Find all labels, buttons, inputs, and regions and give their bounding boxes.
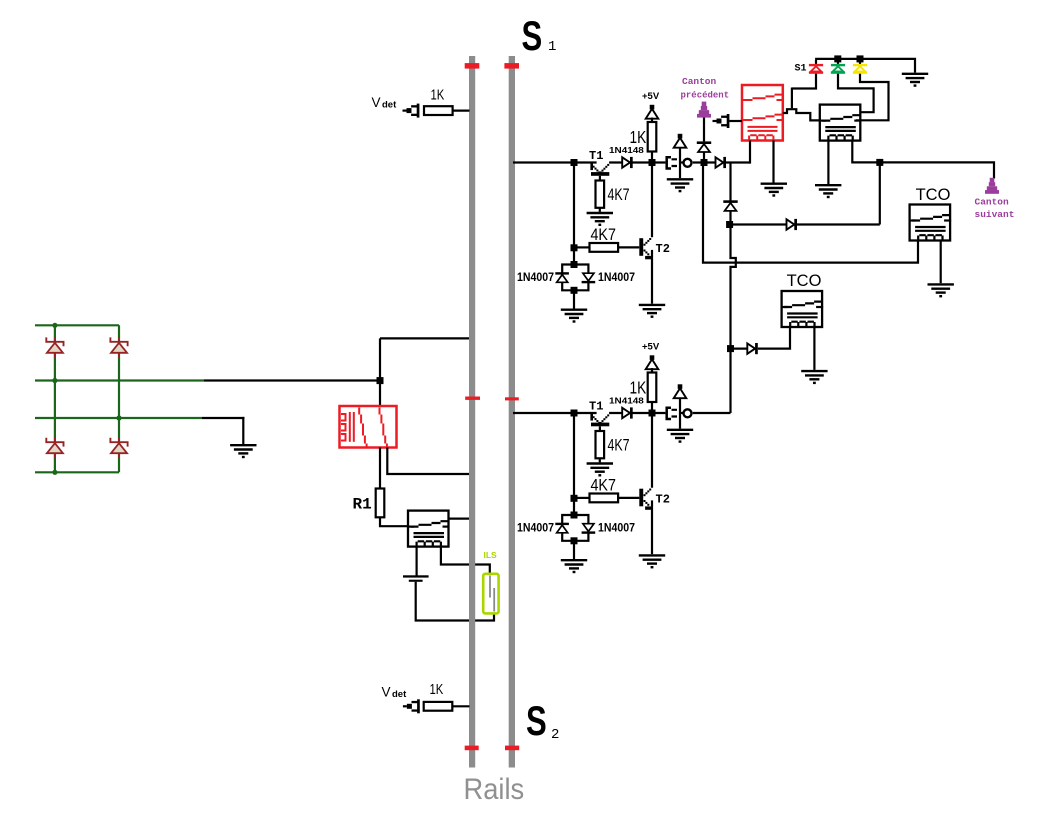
wire [815,59,915,73]
wire [573,163,575,265]
relay K1 [340,406,397,448]
wire [573,541,575,559]
node [52,470,57,475]
wire [758,328,790,349]
wire [731,163,736,414]
svg-text:4K7: 4K7 [591,476,616,494]
wire [703,117,705,142]
svg-text:1N4007: 1N4007 [517,522,554,535]
diode 1N4148 [622,408,630,418]
resistor 4K7 [574,497,590,499]
diode 1N4148 [622,157,630,167]
relay TCO2 [782,291,823,327]
wire [879,162,881,224]
wire [856,74,889,121]
wire [749,141,751,164]
resistor 1K [648,122,657,152]
transistor T1 [590,164,593,171]
wire [35,471,119,473]
svg-text:+5V: +5V [642,91,660,102]
resistor 4K7 [596,431,605,458]
wire [703,163,918,263]
resistor R1 [376,489,385,518]
svg-text:T2: T2 [656,242,670,256]
node [649,410,656,417]
port Canton precedent [702,102,707,107]
node [834,55,841,62]
diode D7 [787,219,795,229]
svg-text:Canton: Canton [682,76,717,87]
relay K3 [742,85,783,141]
wire [852,141,994,179]
svg-text:suivant: suivant [975,209,1015,220]
label S2 [526,697,547,744]
resistor 1K [424,106,453,115]
diode pair 1N4007 [562,265,588,291]
connector J1 [667,157,671,168]
node [649,159,656,166]
transistor T2 [639,238,643,256]
relay TCO1 [910,205,951,241]
wire [651,163,653,238]
svg-text:1: 1 [548,39,556,55]
diode D6 [716,157,724,167]
wire [35,417,202,419]
resistor 4K7 [596,181,605,208]
wire [731,348,748,350]
wire [204,379,380,381]
wire [202,417,244,419]
reed switch ILS [483,574,498,614]
diode D9 [747,343,755,353]
wire [813,327,815,370]
diode pair 1N4007 [562,515,588,541]
svg-text:1K: 1K [431,86,445,103]
wire [681,161,684,163]
svg-text:S1: S1 [795,64,807,75]
wire [379,448,381,489]
rail 1 [469,56,475,768]
ground [587,213,613,221]
transistor T1 [590,414,593,421]
diode D3 [46,438,63,447]
svg-text:+5V: +5V [642,342,660,353]
relay K4 [820,105,861,141]
svg-text:Rails: Rails [464,773,525,806]
svg-text:TCO: TCO [787,272,822,290]
ground [928,284,954,292]
gap mark [505,397,519,400]
wire [387,448,469,475]
svg-text:1K: 1K [630,128,647,147]
port Canton suivant [990,178,995,183]
gap mark [504,63,519,69]
svg-text:R1: R1 [353,496,372,514]
gap mark [465,63,480,69]
svg-text:V: V [382,685,391,700]
resistor 1K [424,702,453,711]
LED green [831,64,845,66]
node [52,323,57,328]
svg-text:Canton: Canton [975,196,1010,207]
wire [693,161,750,163]
wire [416,547,418,576]
node [571,244,578,251]
ground [639,555,665,563]
node [701,159,708,166]
svg-text:V: V [372,95,381,110]
svg-text:4K7: 4K7 [608,186,630,204]
wire [651,413,653,488]
ground [902,74,928,82]
wire [679,399,681,429]
ground [801,371,827,379]
wire [441,547,490,575]
wire [573,290,575,308]
resistor 1K [648,373,657,403]
label S1 [522,12,543,59]
svg-text:1N4007: 1N4007 [598,522,635,535]
wire [513,161,597,163]
svg-text:T2: T2 [656,493,670,507]
ground [667,179,693,187]
wire [35,379,204,381]
wire [513,412,597,414]
resistor 4K7 [574,246,590,248]
gap mark [465,397,480,400]
wire [791,88,793,109]
svg-text:2: 2 [551,727,559,743]
diode D2 [110,337,127,346]
svg-text:T1: T1 [589,149,603,163]
svg-text:1K: 1K [630,379,647,398]
wire [609,161,665,163]
port flag [678,134,683,139]
connector J1 [667,408,671,419]
port arrow [713,120,717,122]
wire [859,59,861,64]
wire [940,241,942,284]
wire [54,325,56,472]
wire [380,337,470,339]
gap mark [505,746,519,751]
svg-text:det: det [392,689,407,700]
ground [761,184,787,192]
rail 2 [509,56,515,768]
wire [449,517,470,519]
LED yellow [853,64,867,66]
gap mark [465,746,479,751]
wire [651,500,653,554]
svg-text:4K7: 4K7 [591,226,616,244]
node [727,345,734,352]
wire [772,141,774,183]
wire [815,60,817,64]
node [876,159,883,166]
diode D8 [723,200,737,203]
node [52,378,57,383]
transistor T2 [639,489,643,507]
ground [667,430,693,438]
ground [561,560,587,568]
svg-text:T1: T1 [589,400,603,414]
svg-text:précédent: précédent [681,90,730,100]
wire [679,149,681,179]
ground [639,305,665,313]
node [571,410,578,417]
wire [837,59,839,64]
wire [118,325,120,472]
wire [35,324,119,326]
svg-text:1N4007: 1N4007 [517,272,554,285]
LED red [809,64,823,66]
wire [783,109,821,120]
svg-text:S: S [526,697,547,744]
svg-text:1N4007: 1N4007 [598,272,635,285]
wire [693,412,731,414]
wire [827,141,829,184]
wire [573,413,575,515]
ground [587,464,613,472]
svg-text:S: S [522,12,543,59]
node [377,377,384,384]
diode D4 [110,438,127,447]
label Rails [464,773,525,806]
relay K2 [408,511,449,547]
battery B1 [403,575,429,577]
ground [815,185,841,193]
node [571,159,578,166]
svg-text:ILS: ILS [484,550,498,560]
svg-text:TCO: TCO [916,186,951,204]
svg-text:1K: 1K [430,681,444,698]
wire [609,412,665,414]
wire [730,223,880,225]
node [116,415,121,420]
ground [230,445,256,453]
diode D5 [697,141,711,144]
port flag [678,384,683,389]
svg-text:det: det [382,100,397,111]
node [571,495,578,502]
node [726,221,733,228]
wire [651,250,653,304]
wire [838,74,874,112]
wire [416,582,494,621]
svg-text:4K7: 4K7 [608,437,630,455]
ground [561,310,587,318]
wire [380,517,409,526]
wire [703,153,705,163]
wire [681,412,684,414]
wire [792,74,816,89]
node [857,55,864,62]
diode D1 [46,337,63,346]
wire [379,338,381,406]
